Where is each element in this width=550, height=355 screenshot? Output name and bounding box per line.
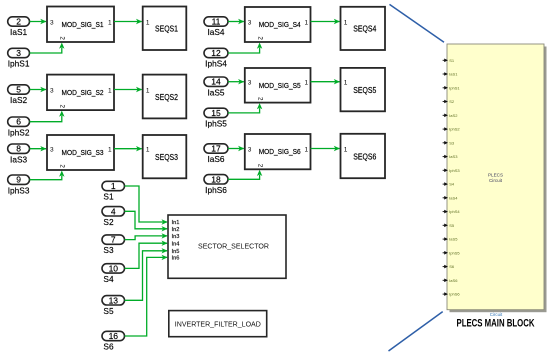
- PLECS input port S3: [443, 140, 455, 145]
- subsystem block INVERTER_FILTER_LOAD: [169, 311, 267, 337]
- svg-text:1: 1: [111, 181, 116, 191]
- svg-text:IphS3: IphS3: [449, 168, 460, 173]
- svg-text:IphS6: IphS6: [449, 292, 460, 297]
- svg-text:MOD_SIG_S1: MOD_SIG_S1: [62, 20, 104, 29]
- svg-text:2: 2: [59, 164, 66, 168]
- svg-text:In1: In1: [172, 220, 180, 226]
- arrowhead into SECTOR_SELECTOR: [162, 233, 168, 238]
- svg-text:IphS1: IphS1: [8, 59, 30, 69]
- svg-text:S3: S3: [449, 140, 455, 145]
- arrowhead into SEQS2: [136, 87, 142, 92]
- arrowhead into MOD_SIG_S6: [238, 146, 244, 151]
- input port oval 2 (IaS1): [8, 17, 30, 38]
- svg-text:SECTOR_SELECTOR: SECTOR_SELECTOR: [198, 242, 269, 251]
- PLECS input port S2: [443, 99, 455, 104]
- svg-text:In4: In4: [172, 241, 180, 247]
- svg-text:1: 1: [146, 88, 150, 95]
- wire IaS5 to MOD_SIG_S5 In3: [228, 81, 244, 83]
- wire S6 to SECTOR_SELECTOR In16: [125, 257, 168, 336]
- subsystem block SEQS4: [341, 7, 386, 50]
- svg-text:IphS5: IphS5: [449, 250, 460, 255]
- svg-text:17: 17: [211, 144, 221, 154]
- svg-text:5: 5: [16, 85, 21, 95]
- svg-text:1: 1: [344, 80, 348, 87]
- PLECS input port IaS3: [443, 154, 459, 159]
- arrowhead into SEQS5: [334, 79, 340, 84]
- svg-text:2: 2: [59, 36, 66, 40]
- svg-text:2: 2: [256, 36, 263, 40]
- svg-text:3: 3: [248, 147, 252, 154]
- wire IaS1 to MOD_SIG_S1 In3: [30, 21, 47, 23]
- PLECS circuit block: [447, 44, 544, 310]
- wire S1 to SECTOR_SELECTOR In1: [125, 186, 168, 222]
- svg-text:PLECS: PLECS: [488, 173, 503, 178]
- svg-text:3: 3: [50, 20, 54, 27]
- subsystem block MOD_SIG_S6: [245, 134, 311, 169]
- svg-text:MOD_SIG_S2: MOD_SIG_S2: [62, 88, 104, 97]
- svg-text:IphS4: IphS4: [449, 209, 460, 214]
- svg-text:1: 1: [108, 88, 112, 95]
- arrowhead into MOD_SIG_S4: [238, 19, 244, 24]
- arrowhead into SECTOR_SELECTOR: [162, 226, 168, 231]
- svg-text:Circuit: Circuit: [490, 312, 503, 317]
- svg-text:3: 3: [16, 48, 21, 58]
- PLECS input port IphS4: [443, 209, 461, 214]
- PLECS input port S1: [443, 58, 455, 63]
- PLECS input port IaS2: [443, 113, 459, 118]
- svg-text:2: 2: [256, 164, 263, 168]
- wire IphS4 to MOD_SIG_S4 In2 (bottom): [228, 48, 260, 54]
- wire MOD_SIG_S5 to SEQS5: [311, 81, 340, 83]
- arrowhead into SECTOR_SELECTOR: [162, 248, 168, 253]
- input port oval 14 (IaS5): [204, 77, 228, 98]
- svg-text:1: 1: [108, 147, 112, 154]
- arrowhead into MOD_SIG_S1: [40, 19, 46, 24]
- svg-text:IaS3: IaS3: [449, 154, 458, 159]
- PLECS input port S6: [443, 264, 455, 269]
- PLECS input port IphS1: [443, 85, 461, 90]
- PLECS input port IphS2: [443, 127, 461, 132]
- PLECS input port IphS5: [443, 250, 461, 255]
- svg-text:SEQS2: SEQS2: [155, 93, 178, 102]
- svg-text:S6: S6: [449, 264, 455, 269]
- svg-text:In6: In6: [172, 256, 180, 262]
- arrowhead up into MOD_SIG_S5 bottom: [257, 103, 262, 109]
- subsystem block SEQS2: [143, 75, 187, 119]
- svg-text:S4: S4: [449, 182, 455, 187]
- input port oval 12 (IphS4): [204, 48, 228, 69]
- svg-text:2: 2: [16, 17, 21, 27]
- callout line top (to PLECS top-left corner): [390, 4, 445, 42]
- svg-text:SEQS3: SEQS3: [155, 153, 178, 162]
- svg-text:INVERTER_FILTER_LOAD: INVERTER_FILTER_LOAD: [175, 319, 261, 328]
- arrowhead up into MOD_SIG_S2 bottom: [59, 111, 64, 117]
- arrowhead into SEQS6: [334, 146, 340, 151]
- svg-text:SEQS5: SEQS5: [353, 86, 376, 95]
- subsystem block MOD_SIG_S3: [47, 135, 114, 170]
- svg-text:S2: S2: [449, 99, 455, 104]
- svg-text:1: 1: [146, 147, 150, 154]
- arrowhead into MOD_SIG_S3: [40, 146, 46, 151]
- wire MOD_SIG_S3 to SEQS3: [114, 148, 142, 150]
- arrowhead into SEQS4: [334, 19, 340, 24]
- input port oval 6 (IphS2): [8, 117, 30, 138]
- svg-text:IaS4: IaS4: [207, 27, 224, 37]
- svg-text:MOD_SIG_S6: MOD_SIG_S6: [259, 147, 301, 156]
- svg-text:SEQS1: SEQS1: [155, 25, 178, 34]
- svg-text:1: 1: [344, 147, 348, 154]
- svg-text:IaS1: IaS1: [10, 27, 27, 37]
- subsystem block MOD_SIG_S1: [47, 7, 114, 43]
- svg-text:SEQS6: SEQS6: [353, 152, 376, 161]
- svg-text:IphS3: IphS3: [8, 185, 30, 195]
- svg-text:3: 3: [248, 80, 252, 87]
- svg-text:IaS2: IaS2: [10, 95, 27, 105]
- svg-text:PLECS MAIN BLOCK: PLECS MAIN BLOCK: [457, 317, 535, 329]
- svg-text:S1: S1: [449, 58, 455, 63]
- wire IphS6 to MOD_SIG_S6 In2 (bottom): [228, 175, 260, 180]
- wire IphS3 to MOD_SIG_S3 In2 (bottom): [30, 176, 62, 180]
- input port oval 7 (S3): [102, 235, 125, 256]
- arrowhead up into MOD_SIG_S6 bottom: [257, 170, 262, 176]
- svg-text:S4: S4: [103, 274, 114, 284]
- arrowhead into SECTOR_SELECTOR: [162, 219, 168, 224]
- svg-text:S5: S5: [103, 306, 114, 316]
- PLECS input port IaS1: [443, 72, 459, 77]
- input port oval 10 (S4): [102, 263, 125, 284]
- svg-text:IaS2: IaS2: [449, 113, 458, 118]
- subsystem block SEQS1: [143, 7, 187, 51]
- svg-text:11: 11: [212, 17, 221, 27]
- svg-text:IaS6: IaS6: [449, 278, 458, 283]
- svg-text:S3: S3: [103, 245, 114, 255]
- svg-text:6: 6: [16, 117, 21, 127]
- svg-text:IaS5: IaS5: [207, 87, 224, 97]
- svg-text:Circuit: Circuit: [489, 178, 503, 183]
- svg-text:13: 13: [109, 295, 119, 305]
- svg-text:4: 4: [111, 206, 116, 216]
- wire MOD_SIG_S6 to SEQS6: [311, 148, 340, 150]
- arrowhead into SEQS3: [136, 146, 142, 151]
- arrowhead into MOD_SIG_S5: [238, 79, 244, 84]
- subsystem block SEQS3: [143, 135, 187, 178]
- svg-text:1: 1: [305, 20, 309, 27]
- arrowhead up into MOD_SIG_S1 bottom: [59, 43, 64, 49]
- wire IaS2 to MOD_SIG_S2 In3: [30, 89, 47, 91]
- svg-text:12: 12: [211, 48, 221, 58]
- svg-text:SEQS4: SEQS4: [353, 25, 376, 34]
- input port oval 17 (IaS6): [204, 144, 228, 165]
- svg-text:IaS3: IaS3: [10, 154, 27, 164]
- wire IphS1 to MOD_SIG_S1 In2 (bottom): [30, 48, 62, 54]
- svg-text:3: 3: [248, 20, 252, 27]
- input port oval 15 (IphS5): [204, 108, 228, 129]
- arrowhead into SECTOR_SELECTOR: [162, 241, 168, 246]
- arrowhead up into MOD_SIG_S3 bottom: [59, 171, 64, 177]
- wire MOD_SIG_S2 to SEQS2: [114, 89, 142, 91]
- svg-text:3: 3: [50, 88, 54, 95]
- svg-text:IaS1: IaS1: [449, 72, 458, 77]
- svg-text:IphS6: IphS6: [205, 185, 227, 195]
- PLECS input port S4: [443, 182, 455, 187]
- svg-text:S2: S2: [103, 217, 114, 227]
- svg-text:7: 7: [111, 235, 116, 245]
- arrowhead up into MOD_SIG_S4 bottom: [257, 43, 262, 49]
- svg-text:IphS5: IphS5: [205, 119, 227, 129]
- svg-text:S5: S5: [449, 223, 455, 228]
- arrowhead into MOD_SIG_S2: [40, 87, 46, 92]
- svg-text:IaS6: IaS6: [207, 154, 224, 164]
- svg-text:8: 8: [16, 144, 21, 154]
- wire IaS3 to MOD_SIG_S3 In3: [30, 148, 47, 150]
- svg-text:10: 10: [109, 263, 119, 273]
- subsystem block SEQS6: [341, 134, 386, 178]
- subsystem block SEQS5: [341, 68, 386, 111]
- svg-text:2: 2: [59, 105, 66, 109]
- PLECS input port IphS6: [443, 292, 461, 297]
- input port oval 16 (S6): [102, 331, 125, 352]
- wire MOD_SIG_S1 to SEQS1: [114, 21, 142, 23]
- input port oval 11 (IaS4): [204, 17, 228, 38]
- wire MOD_SIG_S4 to SEQS4: [311, 21, 340, 23]
- PLECS input port IphS3: [443, 168, 461, 173]
- svg-text:16: 16: [109, 331, 119, 341]
- PLECS input port IaS4: [443, 195, 459, 200]
- input port oval 1 (S1): [102, 181, 125, 202]
- input port oval 13 (S5): [102, 295, 125, 316]
- svg-text:IphS2: IphS2: [449, 127, 460, 132]
- svg-text:MOD_SIG_S4: MOD_SIG_S4: [259, 20, 301, 29]
- svg-text:MOD_SIG_S3: MOD_SIG_S3: [62, 148, 104, 157]
- svg-text:In5: In5: [172, 249, 180, 255]
- svg-text:9: 9: [16, 175, 21, 185]
- svg-text:In3: In3: [172, 234, 180, 240]
- subsystem block MOD_SIG_S5: [245, 68, 311, 103]
- PLECS input port S5: [443, 223, 455, 228]
- svg-text:IphS2: IphS2: [8, 127, 30, 137]
- svg-text:MOD_SIG_S5: MOD_SIG_S5: [259, 81, 301, 90]
- svg-text:2: 2: [256, 97, 263, 101]
- svg-text:IaS4: IaS4: [449, 195, 458, 200]
- wire S5 to SECTOR_SELECTOR In13: [125, 251, 168, 300]
- subsystem block SECTOR_SELECTOR: [168, 215, 286, 278]
- svg-text:1: 1: [108, 20, 112, 27]
- subsystem block MOD_SIG_S2: [47, 75, 114, 111]
- wire IphS2 to MOD_SIG_S2 In2 (bottom): [30, 116, 62, 122]
- arrowhead into SECTOR_SELECTOR: [162, 255, 168, 260]
- wire S4 to SECTOR_SELECTOR In10: [125, 243, 168, 268]
- PLECS block drop shadow: [450, 47, 547, 313]
- svg-text:S1: S1: [103, 192, 114, 202]
- svg-text:3: 3: [50, 147, 54, 154]
- svg-text:1: 1: [305, 147, 309, 154]
- svg-text:IphS1: IphS1: [449, 85, 460, 90]
- input port oval 4 (S2): [102, 206, 125, 227]
- svg-text:1: 1: [305, 80, 309, 87]
- PLECS input port IaS6: [443, 278, 459, 283]
- svg-text:IaS5: IaS5: [449, 237, 458, 242]
- wire IaS6 to MOD_SIG_S6 In3: [228, 148, 244, 150]
- input port oval 18 (IphS6): [204, 174, 228, 195]
- subsystem block MOD_SIG_S4: [245, 7, 311, 42]
- wire IaS4 to MOD_SIG_S4 In3: [228, 21, 244, 23]
- input port oval 5 (IaS2): [8, 85, 30, 106]
- PLECS input port IaS5: [443, 237, 459, 242]
- svg-text:1: 1: [344, 20, 348, 27]
- wire IphS5 to MOD_SIG_S5 In2 (bottom): [228, 108, 260, 113]
- svg-text:14: 14: [211, 77, 221, 87]
- svg-text:15: 15: [211, 108, 221, 118]
- svg-text:IphS4: IphS4: [205, 59, 227, 69]
- svg-text:18: 18: [211, 174, 221, 184]
- arrowhead into SEQS1: [136, 19, 142, 24]
- input port oval 8 (IaS3): [8, 144, 30, 165]
- wire S3 to SECTOR_SELECTOR In7: [125, 236, 168, 240]
- svg-text:In2: In2: [172, 227, 180, 233]
- wire S2 to SECTOR_SELECTOR In4: [125, 211, 168, 229]
- input port oval 3 (IphS1): [8, 48, 30, 69]
- input port oval 9 (IphS3): [8, 175, 30, 196]
- svg-text:S6: S6: [103, 342, 114, 352]
- callout line bottom (to PLECS bottom-left corner): [389, 312, 443, 351]
- svg-text:1: 1: [146, 20, 150, 27]
